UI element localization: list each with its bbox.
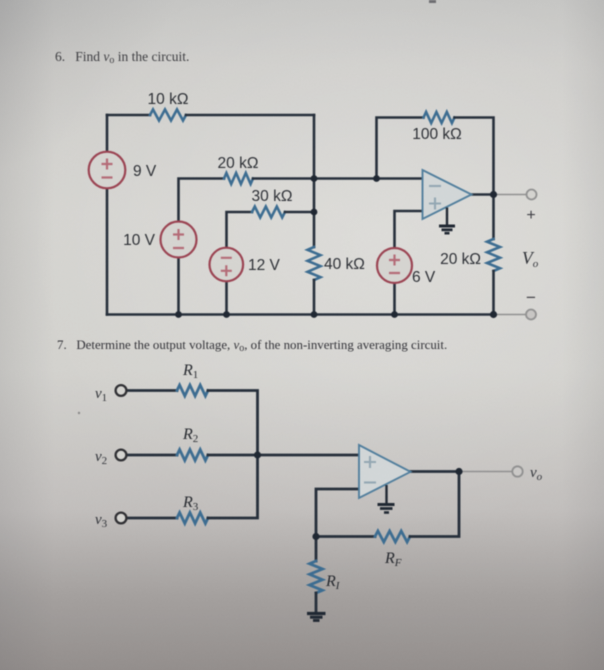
ground (op-amp U2 reference) <box>378 485 395 513</box>
wire output node down to 20k output resistor <box>492 195 495 240</box>
wire x=314 from 30k line to 40k resistor <box>313 212 316 247</box>
wire 30k line corner down to 12V source <box>227 212 253 248</box>
junction node bottom 10V branch <box>175 311 182 318</box>
resistor R 30 kOhm <box>252 207 285 218</box>
wire feedback node down to RI <box>315 537 318 562</box>
speck top edge <box>429 0 436 3</box>
wire x=314 from 40k to bottom rail <box>313 280 316 315</box>
CIRCUIT 6 <box>107 110 526 315</box>
wire top from 10k to right vertical <box>186 114 314 117</box>
terminal v2 <box>116 450 127 461</box>
wire thin lead to vo terminal <box>462 471 512 473</box>
op-amp U2 <box>359 445 411 498</box>
wire RI to ground <box>315 593 318 613</box>
wire op-amp output <box>410 470 459 473</box>
wire R2 to op-amp noninverting input <box>208 454 359 457</box>
junction node output <box>490 191 497 198</box>
wire 12V source to bottom rail <box>225 282 228 315</box>
junction node summing point <box>254 451 261 458</box>
source V 6V <box>377 248 412 283</box>
resistor R 40 kOhm (vertical) <box>308 247 321 280</box>
junction node feedback tap <box>373 175 380 182</box>
wire R3 to summing vertical <box>208 455 258 518</box>
wire feedback top right + right vertical down to output node <box>455 118 494 195</box>
terminal Vo - (open circle) <box>526 310 536 320</box>
speck left margin <box>78 412 80 414</box>
source V 10V <box>161 222 197 258</box>
wire R1 to summing vertical <box>208 391 258 456</box>
op-amp U1 <box>423 170 472 219</box>
wire 20k output to bottom rail <box>492 271 495 315</box>
wire inverting input to feedback node <box>316 489 359 537</box>
wire feedback left vertical <box>377 118 424 179</box>
terminal v1 <box>116 385 127 396</box>
ground (RI) <box>307 614 326 621</box>
resistor R 100 kOhm <box>424 112 455 123</box>
resistor R1 <box>177 385 208 396</box>
junction node bottom 12V branch <box>223 311 230 318</box>
resistor R 20 kOhm output (vertical) <box>487 239 500 271</box>
wire thin lead to Vo+ terminal <box>496 194 526 196</box>
wire 10V source to bottom rail <box>177 258 180 315</box>
CIRCUIT 7 <box>127 385 512 613</box>
ground (op-amp U1 reference) <box>439 208 455 234</box>
wire right vertical x=314 top to 20k line <box>313 115 316 179</box>
wire noninverting input to 6V branch <box>395 211 423 248</box>
wire v2 lead <box>127 454 177 457</box>
junction node on 20k line at x=314 <box>311 175 318 182</box>
junction node bottom 20k output <box>490 311 497 318</box>
resistor R3 <box>177 513 208 524</box>
source V 9V <box>89 152 126 189</box>
terminal v3 <box>116 513 127 524</box>
wire 20k line left corner down to 10V source <box>179 179 225 222</box>
terminal Vo + (open circle) <box>527 190 537 200</box>
wire thin lead to Vo- terminal <box>496 314 526 316</box>
wire v1 lead <box>127 389 177 392</box>
wire v3 lead <box>127 517 177 520</box>
terminal vo <box>512 466 522 476</box>
wire top from left corner to 10k <box>107 114 150 117</box>
resistor R2 <box>177 450 208 461</box>
wire 6V source to bottom rail <box>393 283 396 315</box>
junction node 30k line at x=314 <box>311 209 318 216</box>
resistor RI (vertical) <box>310 561 323 593</box>
wire 30k to x=314 vertical <box>285 211 314 214</box>
junction node bottom 6V branch <box>391 311 398 318</box>
junction node feedback/RI <box>312 533 319 540</box>
junction node bottom 40k branch <box>311 311 318 318</box>
wire op-amp output to node <box>472 193 494 196</box>
wire x=314 from 20k line to 30k line <box>313 179 316 213</box>
wire bottom rail <box>107 313 494 316</box>
wire feedback node to RF <box>316 535 375 538</box>
wire left vertical lower (9V to bottom) <box>106 188 109 315</box>
wire RF to output vertical <box>410 472 459 537</box>
junction node output <box>455 468 462 475</box>
source V 12V (minus on top) <box>210 248 244 282</box>
resistor R 20 kOhm <box>224 173 253 184</box>
resistor R 10 kOhm <box>150 110 186 121</box>
wire 20k line to op-amp inverting input <box>253 177 423 180</box>
resistor RF <box>375 531 410 542</box>
wire left vertical upper (to 9V source) <box>106 115 109 152</box>
